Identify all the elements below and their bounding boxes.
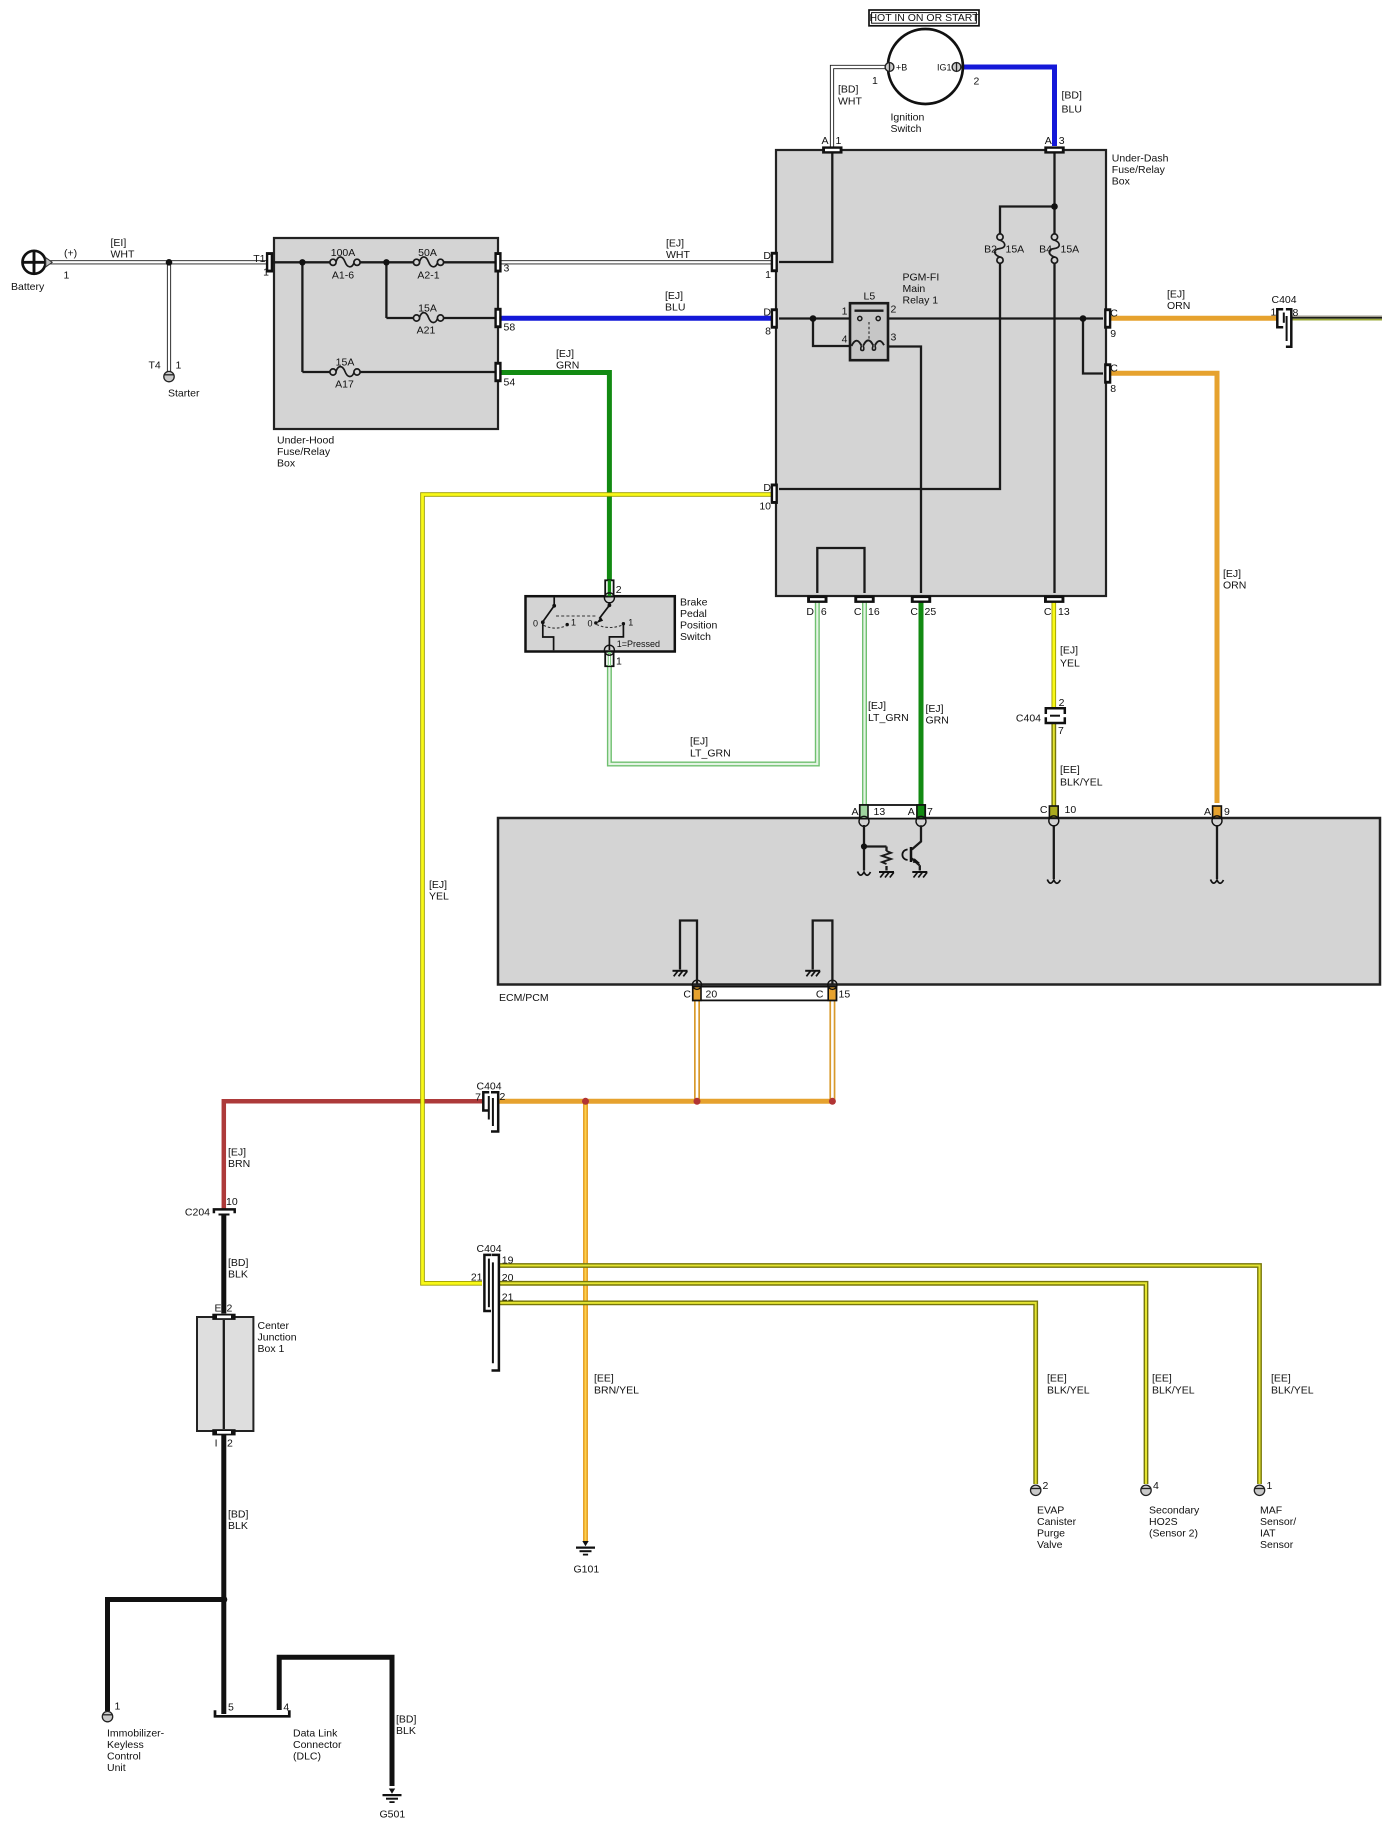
svg-text:BLU: BLU — [665, 302, 685, 314]
svg-text:C: C — [683, 989, 691, 1001]
svg-text:WHT: WHT — [111, 249, 135, 261]
svg-text:Canister: Canister — [1037, 1516, 1077, 1528]
svg-text:Control: Control — [107, 1751, 141, 1763]
svg-text:Main: Main — [903, 283, 926, 295]
svg-text:B2: B2 — [984, 243, 997, 255]
svg-text:58: 58 — [504, 322, 516, 334]
svg-text:15A: 15A — [418, 303, 437, 315]
svg-text:Under-Dash: Under-Dash — [1112, 153, 1169, 165]
svg-text:[BD]: [BD] — [838, 84, 859, 96]
svg-text:2: 2 — [616, 584, 622, 596]
svg-text:I: I — [215, 1438, 218, 1450]
svg-text:C: C — [1110, 363, 1118, 375]
svg-text:Box 1: Box 1 — [258, 1343, 285, 1355]
svg-text:A: A — [1045, 135, 1052, 147]
svg-text:20: 20 — [706, 989, 718, 1001]
svg-text:7: 7 — [927, 806, 933, 818]
svg-text:Under-Hood: Under-Hood — [277, 435, 334, 447]
svg-text:IG1: IG1 — [937, 62, 952, 72]
svg-text:20: 20 — [502, 1272, 514, 1284]
svg-text:C404: C404 — [477, 1081, 502, 1093]
svg-text:[BD]: [BD] — [228, 1257, 249, 1269]
svg-text:[EJ]: [EJ] — [666, 238, 684, 250]
svg-text:GRN: GRN — [926, 715, 949, 727]
svg-text:BLU: BLU — [1062, 104, 1082, 116]
svg-text:[EJ]: [EJ] — [926, 703, 944, 715]
svg-text:BLK/YEL: BLK/YEL — [1047, 1385, 1090, 1397]
svg-text:MAF: MAF — [1260, 1505, 1282, 1517]
svg-text:C404: C404 — [1272, 294, 1297, 306]
svg-text:BLK: BLK — [228, 1269, 248, 1281]
svg-text:100A: 100A — [331, 247, 356, 259]
svg-text:[EJ]: [EJ] — [556, 348, 574, 360]
svg-text:A: A — [1204, 806, 1211, 818]
svg-text:Unit: Unit — [107, 1762, 126, 1774]
svg-text:[EE]: [EE] — [1152, 1373, 1172, 1385]
svg-text:5: 5 — [228, 1702, 234, 1714]
svg-text:54: 54 — [504, 377, 516, 389]
svg-text:C: C — [854, 606, 862, 618]
svg-text:Valve: Valve — [1037, 1539, 1063, 1551]
svg-text:1: 1 — [1270, 307, 1276, 319]
svg-text:D: D — [763, 482, 771, 494]
svg-text:10: 10 — [1065, 804, 1077, 816]
svg-text:Sensor: Sensor — [1260, 1539, 1294, 1551]
svg-text:8: 8 — [1293, 307, 1299, 319]
svg-text:7: 7 — [1058, 725, 1064, 737]
svg-text:[EJ]: [EJ] — [1167, 289, 1185, 301]
svg-text:[EJ]: [EJ] — [868, 700, 886, 712]
svg-text:A2-1: A2-1 — [417, 270, 439, 282]
svg-text:[EE]: [EE] — [594, 1373, 614, 1385]
svg-text:1: 1 — [765, 269, 771, 281]
svg-text:0: 0 — [533, 619, 538, 629]
svg-text:3: 3 — [1059, 135, 1065, 147]
svg-text:Switch: Switch — [680, 631, 711, 643]
svg-text:1: 1 — [64, 270, 70, 282]
svg-text:[EE]: [EE] — [1047, 1373, 1067, 1385]
svg-text:[EJ]: [EJ] — [228, 1147, 246, 1159]
svg-text:4: 4 — [1153, 1480, 1159, 1492]
svg-text:Relay 1: Relay 1 — [903, 295, 939, 307]
svg-text:BRN/YEL: BRN/YEL — [594, 1385, 639, 1397]
svg-text:LT_GRN: LT_GRN — [868, 712, 909, 724]
svg-text:0: 0 — [587, 619, 592, 629]
svg-text:C: C — [910, 606, 918, 618]
svg-text:C: C — [1110, 308, 1118, 320]
svg-text:2: 2 — [974, 76, 980, 88]
svg-text:EVAP: EVAP — [1037, 1505, 1064, 1517]
svg-text:C: C — [816, 989, 824, 1001]
svg-text:C404: C404 — [477, 1243, 502, 1255]
svg-text:Junction: Junction — [258, 1332, 297, 1344]
svg-text:7: 7 — [475, 1092, 481, 1104]
svg-text:2: 2 — [227, 1303, 233, 1315]
svg-text:G501: G501 — [380, 1809, 406, 1821]
svg-text:1: 1 — [628, 618, 633, 628]
svg-text:Ignition: Ignition — [891, 112, 925, 124]
svg-text:A21: A21 — [417, 325, 436, 337]
svg-text:(Sensor 2): (Sensor 2) — [1149, 1528, 1198, 1540]
svg-text:15A: 15A — [1006, 243, 1025, 255]
svg-text:Connector: Connector — [293, 1739, 342, 1751]
svg-text:Box: Box — [1112, 176, 1131, 188]
svg-text:1: 1 — [571, 618, 576, 628]
svg-text:WHT: WHT — [666, 249, 690, 261]
svg-text:Purge: Purge — [1037, 1528, 1065, 1540]
svg-text:D: D — [763, 250, 771, 262]
svg-text:PGM-FI: PGM-FI — [903, 272, 940, 284]
svg-text:YEL: YEL — [429, 891, 449, 903]
svg-text:1: 1 — [176, 360, 182, 372]
svg-text:[EJ]: [EJ] — [1060, 645, 1078, 657]
svg-text:Immobilizer-: Immobilizer- — [107, 1728, 165, 1740]
svg-text:[EJ]: [EJ] — [690, 736, 708, 748]
svg-text:2: 2 — [1043, 1480, 1049, 1492]
svg-text:15A: 15A — [336, 357, 355, 369]
svg-text:Keyless: Keyless — [107, 1739, 144, 1751]
svg-text:A: A — [908, 806, 915, 818]
svg-text:8: 8 — [765, 325, 771, 337]
svg-text:Data Link: Data Link — [293, 1728, 338, 1740]
svg-text:YEL: YEL — [1060, 658, 1080, 670]
svg-text:(+): (+) — [64, 248, 77, 260]
svg-text:13: 13 — [1058, 606, 1070, 618]
svg-text:Starter: Starter — [168, 388, 200, 400]
svg-text:HO2S: HO2S — [1149, 1516, 1178, 1528]
svg-text:C404: C404 — [1016, 713, 1041, 725]
svg-text:21: 21 — [502, 1292, 514, 1304]
svg-text:Brake: Brake — [680, 597, 708, 609]
svg-text:1: 1 — [1267, 1480, 1273, 1492]
svg-text:(DLC): (DLC) — [293, 1751, 321, 1763]
svg-text:1: 1 — [616, 656, 622, 668]
svg-text:Position: Position — [680, 620, 718, 632]
svg-text:BLK: BLK — [228, 1520, 248, 1532]
svg-text:Center: Center — [258, 1320, 290, 1332]
svg-text:T4: T4 — [149, 360, 161, 372]
svg-text:Pedal: Pedal — [680, 608, 707, 620]
svg-text:[EE]: [EE] — [1060, 764, 1080, 776]
svg-text:3: 3 — [891, 332, 897, 344]
svg-text:6: 6 — [821, 606, 827, 618]
svg-text:GRN: GRN — [556, 360, 579, 372]
svg-text:[EJ]: [EJ] — [1223, 568, 1241, 580]
svg-text:Fuse/Relay: Fuse/Relay — [277, 446, 331, 458]
svg-text:BLK/YEL: BLK/YEL — [1271, 1385, 1314, 1397]
svg-text:8: 8 — [1110, 383, 1116, 395]
svg-text:Box: Box — [277, 458, 296, 470]
svg-text:WHT: WHT — [838, 96, 862, 108]
svg-text:E: E — [214, 1303, 221, 1315]
svg-text:D: D — [763, 307, 771, 319]
svg-text:Secondary: Secondary — [1149, 1505, 1200, 1517]
svg-text:21: 21 — [471, 1272, 483, 1284]
svg-text:9: 9 — [1224, 806, 1230, 818]
svg-text:15A: 15A — [1061, 243, 1080, 255]
svg-text:[EJ]: [EJ] — [429, 879, 447, 891]
svg-text:25: 25 — [925, 606, 937, 618]
svg-text:A1-6: A1-6 — [332, 270, 354, 282]
svg-text:16: 16 — [868, 606, 880, 618]
svg-text:10: 10 — [226, 1196, 238, 1208]
svg-text:4: 4 — [283, 1702, 289, 1714]
svg-text:1: 1 — [842, 306, 848, 318]
svg-text:[BD]: [BD] — [228, 1509, 249, 1521]
svg-text:+B: +B — [896, 62, 907, 72]
svg-text:C204: C204 — [185, 1207, 210, 1219]
svg-text:D: D — [806, 606, 814, 618]
svg-text:[EE]: [EE] — [1271, 1373, 1291, 1385]
svg-text:LT_GRN: LT_GRN — [690, 748, 731, 760]
svg-text:G101: G101 — [574, 1564, 600, 1576]
svg-text:BRN: BRN — [228, 1158, 250, 1170]
svg-text:BLK: BLK — [396, 1725, 416, 1737]
svg-text:1: 1 — [115, 1701, 121, 1713]
svg-text:9: 9 — [1110, 328, 1116, 340]
svg-text:[EI]: [EI] — [111, 237, 127, 249]
svg-text:BLK/YEL: BLK/YEL — [1060, 777, 1103, 789]
svg-text:2: 2 — [227, 1438, 233, 1450]
svg-text:1: 1 — [836, 135, 842, 147]
svg-text:C: C — [1044, 606, 1052, 618]
svg-text:Fuse/Relay: Fuse/Relay — [1112, 164, 1166, 176]
svg-text:10: 10 — [759, 501, 771, 513]
svg-text:ECM/PCM: ECM/PCM — [499, 992, 549, 1004]
svg-text:[BD]: [BD] — [396, 1714, 417, 1726]
svg-text:Switch: Switch — [891, 123, 922, 135]
svg-text:50A: 50A — [418, 247, 437, 259]
svg-text:2: 2 — [1059, 697, 1065, 709]
svg-text:HOT IN ON OR START: HOT IN ON OR START — [869, 12, 979, 24]
svg-text:4: 4 — [842, 334, 848, 346]
svg-text:2: 2 — [891, 304, 897, 316]
svg-text:13: 13 — [874, 806, 886, 818]
svg-text:15: 15 — [839, 989, 851, 1001]
svg-text:B4: B4 — [1039, 243, 1052, 255]
svg-text:2: 2 — [500, 1091, 506, 1103]
svg-text:IAT: IAT — [1260, 1528, 1276, 1540]
svg-text:3: 3 — [504, 263, 510, 275]
svg-text:BLK/YEL: BLK/YEL — [1152, 1385, 1195, 1397]
svg-text:A: A — [851, 806, 858, 818]
svg-text:T1: T1 — [253, 253, 265, 265]
svg-text:1: 1 — [263, 267, 269, 279]
svg-text:A: A — [822, 135, 829, 147]
svg-text:Sensor/: Sensor/ — [1260, 1516, 1296, 1528]
svg-text:1=Pressed: 1=Pressed — [617, 639, 660, 649]
svg-text:Battery: Battery — [11, 281, 45, 293]
svg-text:1: 1 — [872, 75, 878, 87]
svg-text:A17: A17 — [335, 379, 354, 391]
svg-text:[BD]: [BD] — [1062, 90, 1083, 102]
svg-text:ORN: ORN — [1167, 300, 1190, 312]
svg-text:C: C — [1040, 804, 1048, 816]
svg-text:L5: L5 — [864, 291, 876, 303]
svg-text:ORN: ORN — [1223, 580, 1246, 592]
svg-text:19: 19 — [502, 1255, 514, 1267]
svg-text:[EJ]: [EJ] — [665, 290, 683, 302]
